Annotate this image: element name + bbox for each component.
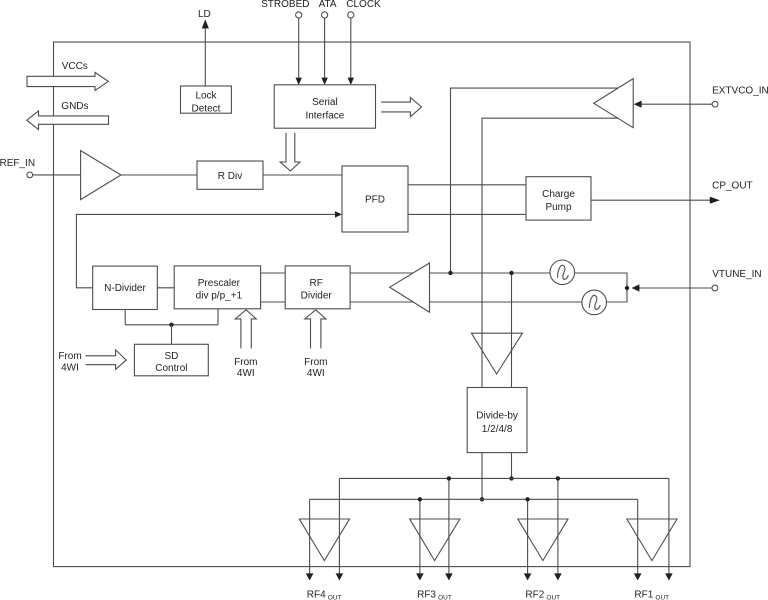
- svg-text:SD: SD: [164, 351, 178, 362]
- svg-text:Charge: Charge: [542, 189, 575, 200]
- svg-text:OUT: OUT: [546, 595, 560, 600]
- amplifier: external VCO buffer (left pointing): [594, 79, 634, 128]
- block: Charge Pump: [526, 177, 591, 220]
- power arrow VCCs: [27, 72, 108, 90]
- wire: divide-by left output to lower bus: [481, 453, 483, 500]
- buffer: reference input: [81, 151, 121, 200]
- junction: RF3 upper bus: [447, 476, 451, 480]
- svg-text:RF2: RF2: [525, 589, 544, 600]
- block: Serial Interface: [274, 85, 375, 128]
- pin label RF1OUT: [634, 589, 669, 600]
- wire: RF3 right input and output: [445, 478, 453, 580]
- junction: divide-by to lower bus: [480, 497, 484, 501]
- ground arrow GNDs: [27, 111, 109, 130]
- block: Prescaler: [174, 266, 260, 309]
- pin label RF3OUT: [417, 589, 452, 600]
- junction: loop to divide chain: [509, 271, 513, 275]
- svg-text:RF1: RF1: [634, 589, 653, 600]
- wire: EXTVCO buffer upper output to loop: [451, 88, 626, 273]
- svg-text:PFD: PFD: [365, 195, 385, 206]
- label From 4WI (RF divider): [304, 357, 327, 379]
- bus arrow: serial interface output down to R Div line: [280, 133, 300, 171]
- wire: RF divider to VCO mux upper / to VTUNE node: [350, 273, 627, 288]
- svg-text:CLOCK: CLOCK: [346, 0, 381, 10]
- wire: prescaler to RF divider upper: [261, 272, 286, 274]
- wire: RF4 right input and output: [336, 478, 344, 580]
- wire: junction to SD control box: [171, 325, 173, 345]
- svg-text:4WI: 4WI: [61, 363, 79, 374]
- block: R Div: [197, 161, 263, 189]
- wire: RF2 left input and output: [524, 499, 532, 580]
- svg-text:Prescaler: Prescaler: [198, 278, 241, 289]
- svg-text:OUT: OUT: [328, 595, 342, 600]
- svg-text:Control: Control: [155, 363, 187, 374]
- output buffer RF4: [299, 519, 349, 561]
- wire: ATA to serial interface: [321, 18, 327, 85]
- junction: VTUNE node: [625, 286, 629, 290]
- wire: charge pump to CP_OUT pin: [591, 197, 720, 204]
- oscillator: internal VCO 1: [550, 260, 575, 285]
- junction: RF3 lower bus: [418, 497, 422, 501]
- svg-text:Lock: Lock: [195, 91, 217, 102]
- buffer: VCO mux (left pointing): [390, 263, 430, 312]
- svg-text:RF: RF: [310, 278, 323, 289]
- svg-text:1/2/4/8: 1/2/4/8: [482, 424, 513, 435]
- pin label RF4OUT: [307, 589, 342, 600]
- wire: loop branch down to divide chain: [511, 273, 513, 388]
- svg-text:div p/p_+1: div p/p_+1: [196, 290, 243, 301]
- pin STROBED: [296, 12, 302, 18]
- junction: RF2 upper bus: [556, 476, 560, 480]
- svg-text:GNDs: GNDs: [61, 101, 88, 112]
- wire: prescaler to RF divider lower: [261, 301, 286, 303]
- svg-text:ATA: ATA: [319, 0, 337, 10]
- svg-text:Pump: Pump: [545, 202, 572, 213]
- svg-text:EXTVCO_IN: EXTVCO_IN: [712, 86, 768, 97]
- svg-text:4WI: 4WI: [237, 368, 255, 379]
- wire: RF1 right input and output: [665, 478, 673, 580]
- bus arrow: serial interface output right: [381, 97, 421, 116]
- svg-text:VCCs: VCCs: [62, 61, 88, 72]
- svg-text:Serial: Serial: [312, 97, 338, 108]
- block: PFD: [342, 166, 408, 232]
- wire: RF1 left input and output: [634, 499, 642, 580]
- svg-text:CP_OUT: CP_OUT: [712, 180, 753, 191]
- wire: N-Divider to SD control: [124, 310, 126, 325]
- wire: RF2 right input and output: [554, 478, 562, 580]
- svg-text:From: From: [304, 357, 327, 368]
- svg-text:RF3: RF3: [417, 589, 436, 600]
- wire: R Div to PFD: [263, 174, 342, 176]
- wire: STROBED to serial interface: [296, 18, 302, 85]
- block: Lock Detect: [181, 86, 232, 115]
- bus arrow: 4WI to SD control: [86, 350, 127, 370]
- pin ATA: [322, 12, 328, 18]
- wire: CLOCK to serial interface: [348, 18, 354, 85]
- svg-text:N-Divider: N-Divider: [104, 283, 146, 294]
- wire: prescaler to SD control: [217, 309, 219, 325]
- junction: SD control: [169, 323, 173, 327]
- label From 4WI (prescaler): [234, 357, 257, 379]
- wire: RF divider to VCO mux lower / to VTUNE node: [350, 288, 627, 302]
- wire: lower distribution bus: [310, 498, 638, 500]
- wire: VTUNE_IN pin to VTUNE node: [632, 284, 712, 291]
- pin EXTVCO_IN: [712, 101, 718, 107]
- wire: SD control junction bar: [125, 324, 218, 326]
- wire: upper distribution bus: [339, 477, 669, 479]
- svg-text:Divide-by: Divide-by: [476, 410, 518, 421]
- junction: divide-by to upper bus: [509, 476, 513, 480]
- svg-text:LD: LD: [198, 9, 211, 20]
- oscillator: internal VCO 2: [582, 290, 607, 315]
- pin VTUNE_IN: [712, 285, 718, 291]
- svg-text:From: From: [234, 357, 257, 368]
- svg-text:Interface: Interface: [305, 111, 344, 122]
- svg-text:4WI: 4WI: [307, 368, 325, 379]
- block: Divide-by 1/2/4/8: [467, 388, 527, 453]
- chip outline: [54, 42, 691, 567]
- bus arrow: 4WI to prescaler: [235, 310, 256, 349]
- pin label RF2OUT: [525, 589, 560, 600]
- svg-text:STROBED: STROBED: [261, 0, 309, 10]
- bus arrow: 4WI to RF divider: [305, 310, 326, 349]
- block: N-Divider: [93, 266, 158, 309]
- block: SD Control: [134, 344, 208, 376]
- svg-text:R Div: R Div: [218, 171, 242, 182]
- svg-text:Divider: Divider: [301, 290, 333, 301]
- svg-text:VTUNE_IN: VTUNE_IN: [712, 269, 761, 280]
- wire: RF4 left input and output: [306, 499, 314, 580]
- svg-text:From: From: [58, 351, 81, 362]
- svg-text:REF_IN: REF_IN: [0, 158, 35, 169]
- wire: lock detect to LD pin: [202, 20, 209, 87]
- svg-text:Detect: Detect: [192, 104, 221, 115]
- output buffer RF1: [627, 519, 677, 561]
- wire: REF_IN pin to buffer: [33, 174, 81, 176]
- svg-text:OUT: OUT: [438, 595, 452, 600]
- wire: N-Divider feedback to PFD: [76, 211, 342, 288]
- pin REF_IN: [27, 172, 33, 178]
- wire: PFD to charge pump lower: [408, 213, 526, 215]
- wire: RF3 left input and output: [416, 499, 424, 580]
- wire: PFD to charge pump upper: [408, 184, 526, 186]
- wire: EXTVCO_IN pin to buffer: [634, 101, 712, 108]
- buffer: divide chain input (down triangle): [471, 333, 522, 374]
- output buffer RF3: [410, 519, 460, 561]
- output buffer RF2: [518, 519, 568, 561]
- svg-text:OUT: OUT: [655, 595, 669, 600]
- pin CLOCK: [348, 12, 354, 18]
- block: RF Divider: [285, 266, 350, 309]
- junction: EXTVCO into loop: [448, 271, 452, 275]
- wire: N-Divider to prescaler: [157, 287, 174, 289]
- svg-text:RF4: RF4: [307, 589, 326, 600]
- junction: RF2 lower bus: [525, 497, 529, 501]
- wire: buffer to R Div: [121, 174, 197, 176]
- wire: EXTVCO buffer lower output to divide chain: [482, 118, 625, 387]
- label From 4WI (left): [58, 351, 81, 374]
- wire: divide-by right output to upper bus: [511, 453, 513, 479]
